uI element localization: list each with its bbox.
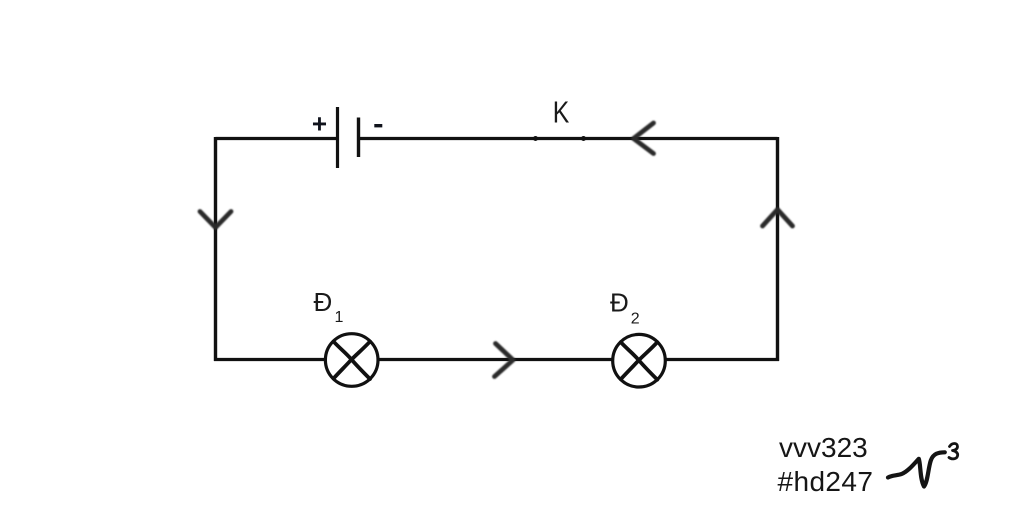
current arrow down (left wire) [200, 212, 231, 228]
lamp Đ2 (circle with X) [613, 334, 666, 387]
battery short plate (-) [357, 118, 360, 158]
wire right side [776, 137, 779, 361]
battery long plate (+) [336, 107, 339, 168]
wire bottom-right segment (lamp Đ2 to right corner) [665, 358, 779, 361]
label Đ1 [314, 287, 344, 326]
svg-text:K: K [553, 95, 570, 129]
wire bottom-middle segment (lamp Đ1 to lamp Đ2) [378, 358, 613, 361]
wire top-left segment (battery + terminal to left corner) [216, 137, 338, 140]
svg-text:+: + [312, 109, 327, 139]
label Đ2 [610, 288, 640, 328]
switch K contact dot right [581, 136, 586, 141]
switch K contact dot left [533, 136, 538, 141]
svg-text:2: 2 [631, 310, 640, 327]
current arrow right (bottom wire) [495, 344, 514, 377]
svg-text:#hd247: #hd247 [778, 466, 874, 497]
label - (battery negative) [374, 124, 382, 127]
svg-text:vvv323: vvv323 [779, 432, 868, 463]
wire top-right segment (battery - terminal through switch K to right corner) [359, 137, 778, 140]
current arrow left (top wire) [634, 123, 654, 154]
svg-text:1: 1 [335, 309, 344, 326]
lamp Đ1 (circle with X) [325, 334, 378, 387]
wire left side [214, 137, 217, 361]
wire bottom-left segment (left corner to lamp Đ1) [214, 358, 325, 361]
svg-text:Đ: Đ [610, 288, 629, 318]
current arrow up (right wire) [763, 210, 793, 227]
svg-text:Đ: Đ [314, 287, 333, 317]
signature squiggle [888, 444, 958, 487]
